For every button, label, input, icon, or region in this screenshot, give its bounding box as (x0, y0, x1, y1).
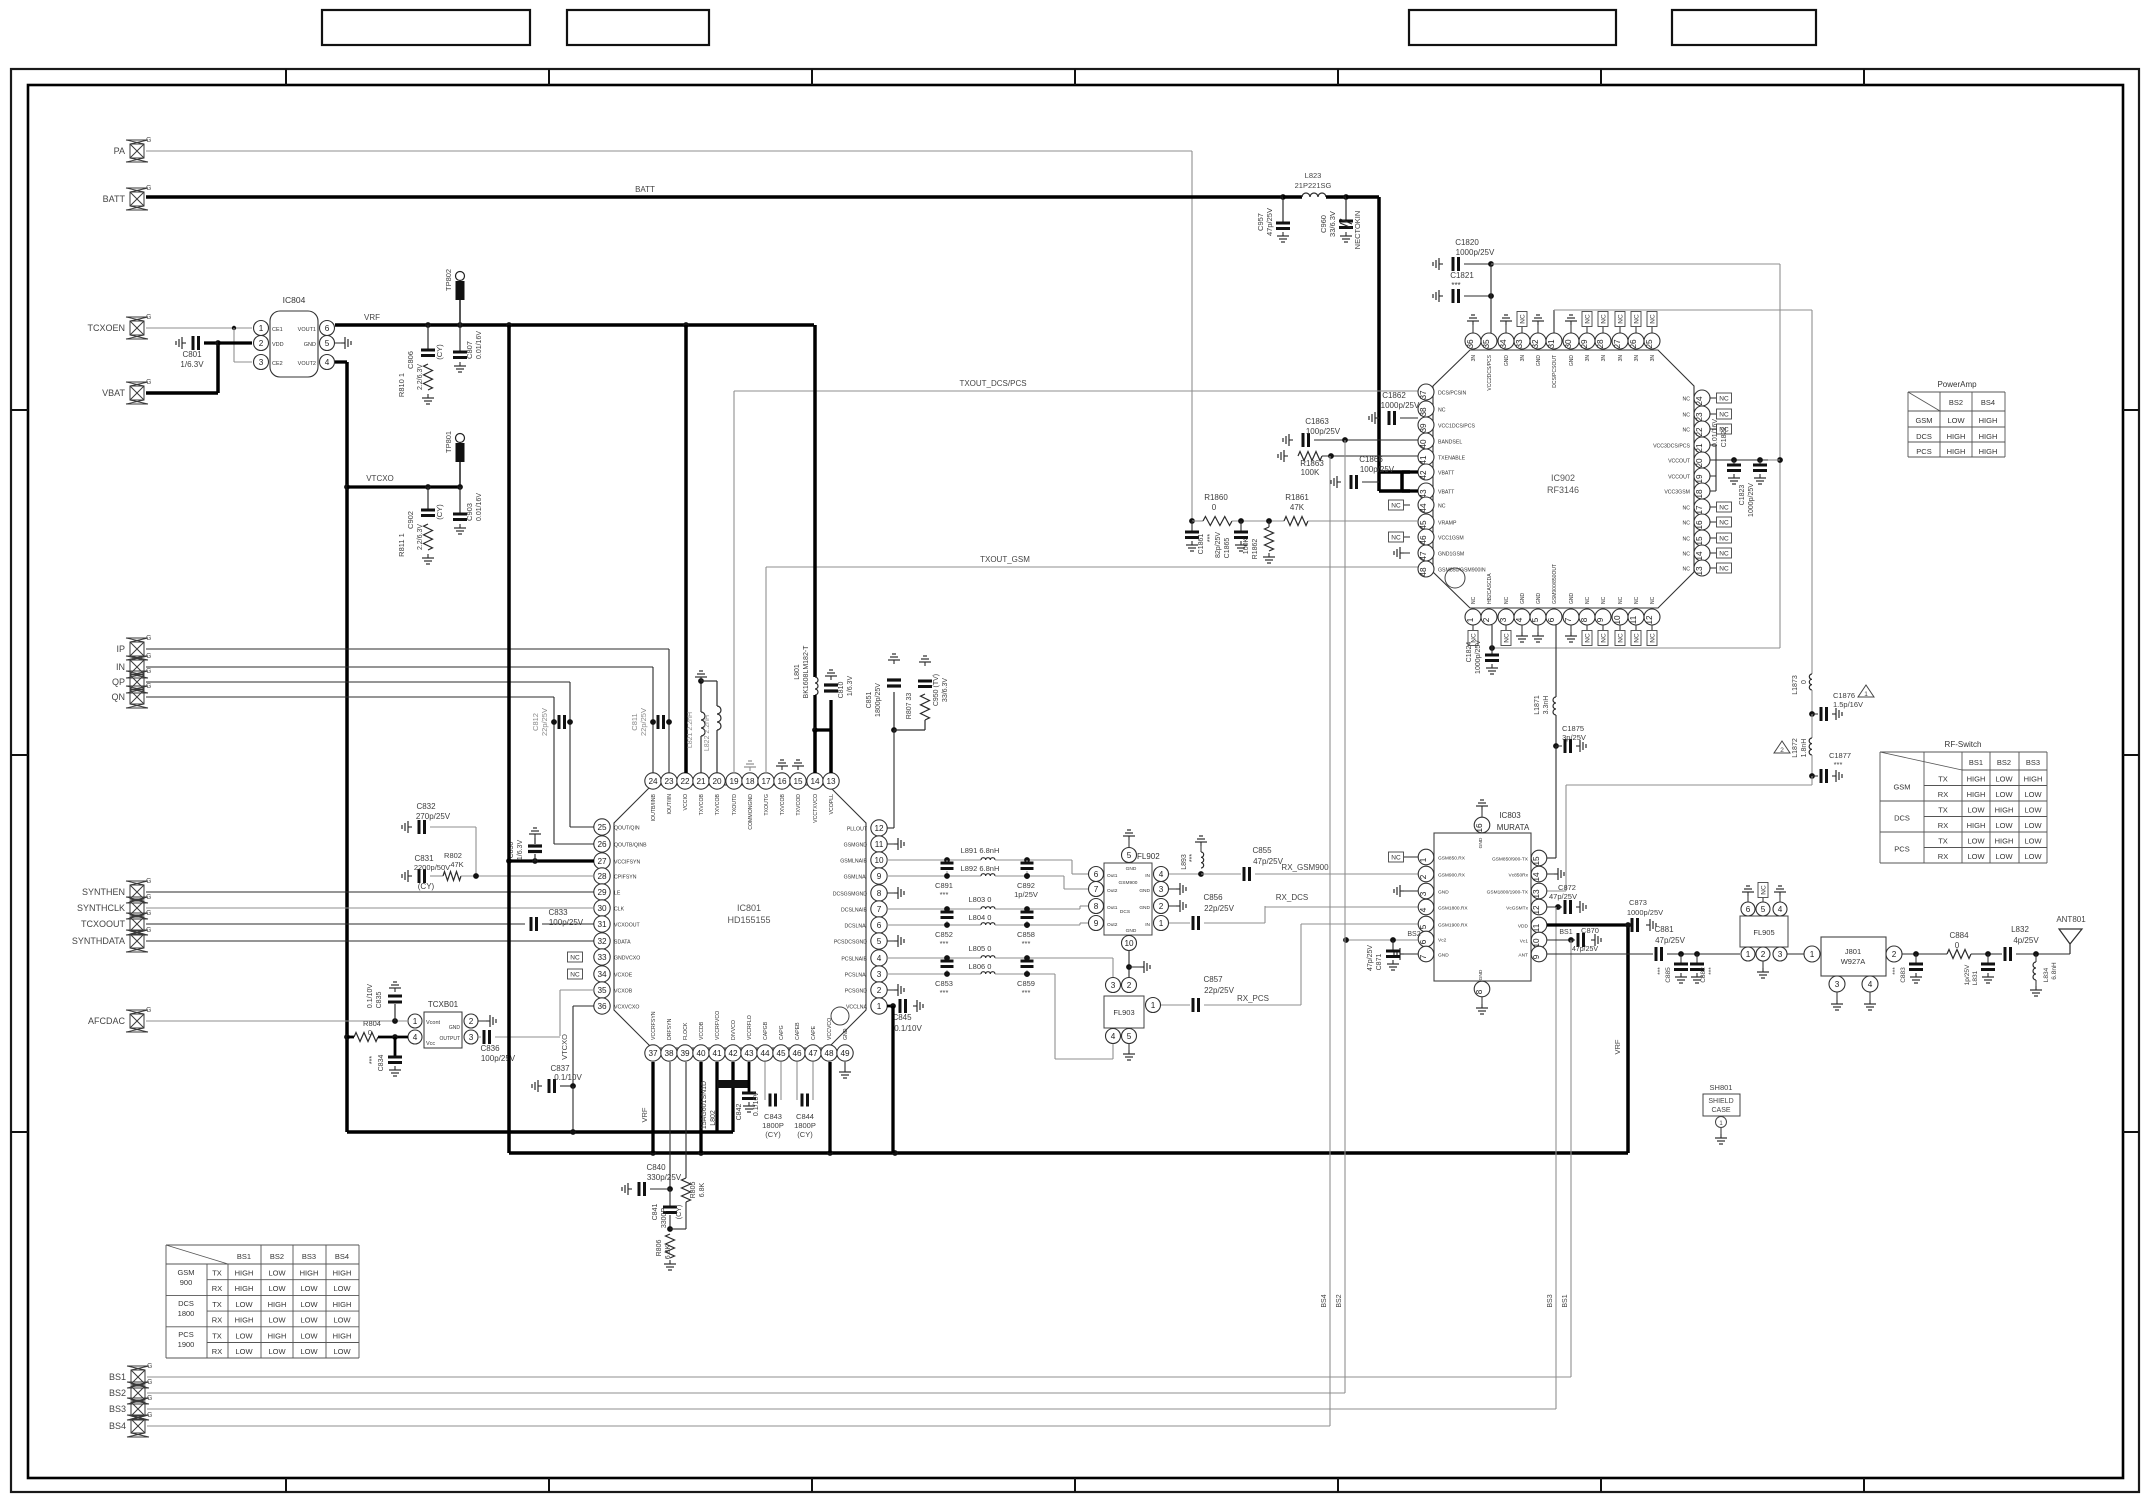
svg-text:***: *** (1892, 967, 1899, 975)
wire pin41 VCCRFVCO (715, 1062, 718, 1132)
svg-text:LOW: LOW (1995, 775, 2013, 784)
svg-text:1: 1 (1810, 950, 1815, 959)
capacitor C902 and resistor R811 (425, 484, 431, 490)
svg-text:NC: NC (1761, 885, 1768, 895)
svg-text:BS4: BS4 (335, 1252, 349, 1261)
svg-text:23: 23 (664, 777, 674, 786)
svg-text:3: 3 (1111, 981, 1116, 990)
capacitor C857 (1161, 1004, 1190, 1006)
connector QN (130, 690, 144, 704)
wire BS2 horizontal (147, 1392, 1345, 1394)
svg-text:LOW: LOW (1995, 790, 2013, 799)
svg-text:TXOUT_GSM: TXOUT_GSM (980, 555, 1030, 564)
connector BS2 (131, 1386, 145, 1400)
svg-text:C851: C851 (866, 692, 873, 709)
svg-text:C1821: C1821 (1450, 271, 1474, 280)
svg-text:NC: NC (1618, 633, 1625, 643)
svg-text:C841: C841 (652, 1204, 659, 1221)
svg-text:BS4: BS4 (1981, 398, 1995, 407)
svg-text:VCXOOUT: VCXOOUT (614, 923, 640, 929)
capacitor C844 (796, 1062, 798, 1100)
svg-text:47K: 47K (1290, 503, 1305, 512)
svg-text:G: G (146, 137, 151, 144)
svg-text:LOW: LOW (1967, 852, 1985, 861)
ground FL903 pin5 (1128, 1044, 1130, 1050)
svg-text:BS1: BS1 (1969, 758, 1983, 767)
connector PA (130, 144, 144, 158)
svg-text:G: G (146, 894, 151, 901)
svg-text:(CY): (CY) (797, 1130, 813, 1139)
svg-text:3: 3 (469, 1033, 474, 1042)
svg-text:330p/25V: 330p/25V (647, 1173, 682, 1182)
svg-text:1: 1 (1466, 617, 1475, 622)
svg-text:1000p/25V: 1000p/25V (1381, 401, 1420, 410)
connector SYNTHEN (130, 885, 144, 899)
svg-text:C811: C811 (630, 713, 639, 730)
svg-text:CE1: CE1 (272, 327, 283, 333)
svg-text:22: 22 (1695, 427, 1704, 437)
NC flag IC902 pin46 (1404, 536, 1410, 538)
svg-text:21: 21 (696, 777, 706, 786)
svg-text:LOW: LOW (268, 1269, 286, 1278)
wire pin42 DIVVCO (731, 1062, 734, 1132)
svg-text:3N: 3N (1471, 355, 1477, 362)
ground pin8 DCSGSMGND (887, 892, 894, 894)
svg-text:LOW: LOW (235, 1300, 253, 1309)
svg-text:TCXB01: TCXB01 (428, 1000, 459, 1009)
svg-text:35: 35 (1482, 339, 1491, 349)
wire BS4 horizontal (147, 1425, 1330, 1427)
svg-text:(CY): (CY) (435, 344, 444, 360)
wire PCSLNAIB row (887, 957, 981, 959)
svg-text:RX_GSM900: RX_GSM900 (1281, 863, 1329, 872)
inductor L821 (700, 736, 702, 773)
svg-text:20: 20 (1695, 458, 1704, 468)
svg-text:15: 15 (793, 777, 803, 786)
svg-text:NC: NC (1601, 633, 1608, 643)
svg-text:LOW: LOW (1947, 416, 1965, 425)
svg-text:VCC3GSM: VCC3GSM (1664, 490, 1690, 496)
svg-text:NC: NC (1719, 520, 1729, 527)
svg-text:GNDVCXO: GNDVCXO (614, 956, 640, 962)
wire VDD VRF thick (1547, 923, 1628, 926)
ground IC803 pin8 (1481, 997, 1483, 1004)
svg-text:FLOCK: FLOCK (683, 1022, 689, 1040)
svg-text:12: 12 (1645, 615, 1654, 625)
wire PLLOUT pin12 (887, 827, 894, 829)
svg-text:L892 6.8nH: L892 6.8nH (961, 864, 1000, 873)
svg-text:5: 5 (1761, 905, 1766, 914)
capacitor C1875 (1553, 743, 1559, 749)
svg-text:11: 11 (1629, 615, 1638, 624)
connector IN (130, 660, 144, 674)
svg-text:***: *** (1451, 281, 1460, 290)
capacitor C845 (887, 1005, 893, 1008)
svg-text:GSM900.RX: GSM900.RX (1438, 873, 1466, 879)
svg-text:DCS: DCS (1916, 432, 1932, 441)
resistor R804 (344, 1034, 350, 1040)
svg-text:21P221SG: 21P221SG (1295, 181, 1332, 190)
svg-text:HD155155: HD155155 (727, 915, 770, 925)
svg-text:14: 14 (1532, 872, 1541, 882)
svg-text:0.01/16V: 0.01/16V (476, 331, 483, 359)
svg-text:NC: NC (1719, 536, 1729, 543)
svg-text:1: 1 (413, 1017, 418, 1026)
svg-text:(CY): (CY) (676, 1205, 683, 1219)
svg-text:HIGH: HIGH (300, 1269, 319, 1278)
svg-text:39: 39 (680, 1049, 690, 1058)
svg-text:0.1/10V: 0.1/10V (554, 1073, 582, 1082)
svg-text:HIGH: HIGH (235, 1269, 254, 1278)
svg-text:33/6.3V: 33/6.3V (942, 678, 949, 702)
svg-text:1.5p/16V: 1.5p/16V (1833, 700, 1863, 709)
wire VCCOUT bracket (1710, 444, 1716, 446)
svg-text:GSM850/900-TX: GSM850/900-TX (1492, 857, 1529, 863)
svg-text:47p/25V: 47p/25V (1572, 946, 1598, 953)
svg-text:BS4: BS4 (109, 1421, 126, 1431)
svg-text:BS3: BS3 (1547, 1294, 1554, 1307)
svg-text:NC: NC (1585, 596, 1591, 604)
svg-text:100K: 100K (1243, 538, 1250, 555)
svg-text:1000p/25V: 1000p/25V (1475, 640, 1482, 674)
NC flag pin33 (568, 952, 583, 962)
svg-text:3N: 3N (1520, 355, 1526, 362)
svg-text:DCS: DCS (178, 1299, 194, 1308)
svg-text:GND: GND (1536, 355, 1542, 367)
resistor R1863 (1284, 455, 1288, 457)
svg-text:FL905: FL905 (1753, 928, 1774, 937)
svg-text:24: 24 (648, 777, 658, 786)
connector SYNTHDATA (130, 934, 144, 948)
svg-text:VCCIO: VCCIO (683, 794, 689, 810)
capacitor C812 (551, 719, 557, 725)
svg-text:26: 26 (597, 840, 607, 849)
inductor L806 (981, 972, 995, 974)
svg-text:LOW: LOW (1967, 837, 1985, 846)
svg-text:***: *** (1834, 760, 1843, 769)
svg-text:38: 38 (1419, 407, 1428, 417)
svg-text:TX: TX (212, 1331, 222, 1340)
svg-text:C1822: C1822 (1721, 427, 1728, 448)
svg-text:VRF: VRF (364, 313, 380, 322)
svg-text:***: *** (369, 1056, 376, 1064)
connector VBAT (130, 386, 144, 400)
svg-text:Vcc: Vcc (426, 1041, 435, 1047)
svg-text:C1865: C1865 (1224, 538, 1231, 559)
svg-text:LOW: LOW (300, 1316, 318, 1325)
inductor L893 (1169, 873, 1201, 875)
svg-text:28: 28 (597, 872, 607, 881)
svg-text:DCSLNAI: DCSLNAI (845, 924, 868, 930)
svg-text:HIGH: HIGH (1967, 790, 1986, 799)
svg-text:11: 11 (875, 840, 884, 849)
svg-text:NC: NC (1719, 396, 1729, 403)
svg-text:HIGH: HIGH (1947, 447, 1966, 456)
svg-text:LOW: LOW (300, 1284, 318, 1293)
svg-text:NC: NC (1650, 596, 1656, 604)
connector BATT (130, 192, 144, 206)
svg-text:NC: NC (1719, 551, 1729, 558)
svg-text:21: 21 (1695, 443, 1704, 453)
svg-text:HIGH: HIGH (235, 1316, 254, 1325)
svg-text:2: 2 (1761, 950, 1766, 959)
svg-text:RF3146: RF3146 (1547, 485, 1579, 495)
svg-text:C1875: C1875 (1562, 724, 1584, 733)
svg-text:6: 6 (1094, 870, 1099, 879)
capacitor C835 (394, 988, 396, 992)
svg-text:PCSGND: PCSGND (845, 989, 867, 995)
svg-text:3: 3 (1778, 950, 1783, 959)
svg-text:IN: IN (1145, 922, 1150, 928)
svg-text:FL903: FL903 (1113, 1008, 1134, 1017)
svg-text:VTCXO: VTCXO (366, 474, 394, 483)
svg-text:NC: NC (1438, 408, 1446, 414)
svg-text:DCSGSMGND: DCSGSMGND (833, 892, 868, 898)
svg-text:43: 43 (744, 1049, 754, 1058)
svg-text:2: 2 (1892, 950, 1897, 959)
svg-text:VDD: VDD (1518, 924, 1529, 930)
svg-text:BK1608LM182-T: BK1608LM182-T (803, 645, 810, 699)
capacitor C871 (1392, 940, 1394, 950)
svg-text:2: 2 (1780, 747, 1784, 754)
svg-text:1p/25V: 1p/25V (1964, 964, 1971, 985)
svg-text:2200p/50V: 2200p/50V (414, 863, 450, 872)
capacitor C840 (628, 1188, 632, 1190)
svg-text:2: 2 (469, 1017, 474, 1026)
svg-text:VCCIFSYN: VCCIFSYN (614, 860, 640, 866)
svg-text:HIGH: HIGH (1979, 432, 1998, 441)
svg-text:GSM900/850OUT: GSM900/850OUT (1552, 564, 1558, 604)
wire TXOUT_GSM net (765, 567, 767, 773)
svg-text:TXOUT_DCS/PCS: TXOUT_DCS/PCS (959, 379, 1026, 388)
svg-text:R1860: R1860 (1204, 493, 1228, 502)
svg-text:GND: GND (1126, 866, 1137, 872)
svg-text:26: 26 (1629, 339, 1638, 349)
svg-text:LOW: LOW (2024, 837, 2042, 846)
svg-text:C1862: C1862 (1382, 391, 1406, 400)
svg-text:1800: 1800 (178, 1309, 195, 1318)
svg-text:***: *** (1189, 854, 1196, 862)
svg-text:10: 10 (1124, 939, 1134, 948)
ground pin15 (797, 766, 799, 770)
svg-text:DCS/PCSIN: DCS/PCSIN (1438, 391, 1467, 397)
wire VRF rail (335, 323, 814, 327)
ground FL902 pin3 (1169, 888, 1176, 890)
svg-text:NC: NC (1391, 503, 1401, 510)
svg-text:C859: C859 (1017, 979, 1035, 988)
svg-text:NC: NC (1650, 314, 1657, 324)
svg-text:12: 12 (1532, 905, 1541, 915)
wire pin39 FLOCK resistor R805 (685, 1062, 687, 1178)
wire VCC2 to pin35 (1490, 264, 1492, 333)
capacitor C1824 (1491, 625, 1493, 654)
svg-text:BS4: BS4 (1321, 1294, 1328, 1307)
svg-text:8: 8 (877, 889, 882, 898)
svg-text:NC: NC (1391, 855, 1401, 862)
svg-text:SHIELD: SHIELD (1708, 1098, 1733, 1105)
svg-text:VCC2DCS/PCS: VCC2DCS/PCS (1487, 354, 1493, 390)
IC antenna switch IC803 (1434, 833, 1531, 981)
capacitor C1820 (1439, 263, 1443, 265)
filter FL902 (1104, 863, 1152, 935)
wire BS2 vertical (1344, 440, 1346, 1393)
svg-text:VCCRFLO: VCCRFLO (747, 1015, 753, 1040)
svg-text:7: 7 (1419, 954, 1428, 959)
wire BATT net (146, 195, 1283, 199)
wire pin48 VCCVCO (828, 1062, 831, 1153)
svg-text:2: 2 (1159, 902, 1164, 911)
ground IC803 pin14 (1547, 873, 1554, 875)
svg-text:NC: NC (1438, 504, 1446, 510)
svg-text:NC: NC (1520, 314, 1527, 324)
svg-text:46: 46 (792, 1049, 802, 1058)
wire VcGSMTx BS3 (1547, 906, 1558, 908)
svg-text:G: G (146, 653, 151, 660)
capacitor C960 (1343, 194, 1349, 200)
svg-text:G: G (146, 910, 151, 917)
svg-text:4: 4 (1515, 617, 1524, 622)
svg-text:RX: RX (212, 1284, 222, 1293)
svg-text:10: 10 (1613, 615, 1622, 625)
inductor L834 (2035, 954, 2037, 962)
svg-text:3: 3 (1419, 891, 1428, 896)
svg-text:HIGH: HIGH (1967, 775, 1986, 784)
svg-text:IOUTB/IINB: IOUTB/IINB (651, 793, 657, 821)
svg-text:L832: L832 (2011, 925, 2029, 934)
svg-text:NC: NC (1650, 633, 1657, 643)
svg-text:VRAMP: VRAMP (1438, 521, 1457, 527)
svg-text:36: 36 (1466, 339, 1475, 349)
svg-text:BATT: BATT (103, 194, 126, 204)
ground FL905 pin4 (1779, 896, 1781, 902)
connector BS4 (131, 1419, 145, 1433)
svg-text:C957: C957 (1256, 213, 1265, 231)
svg-text:G: G (146, 927, 151, 934)
svg-text:4: 4 (1159, 870, 1164, 879)
svg-text:C845: C845 (892, 1013, 912, 1022)
border tick marks (285, 69, 287, 85)
svg-text:LOW: LOW (2024, 852, 2042, 861)
ground FL905 pin6 (1747, 896, 1749, 902)
svg-text:3N: 3N (1650, 355, 1656, 362)
svg-text:28: 28 (1596, 339, 1605, 349)
capacitor C842 (748, 1062, 751, 1092)
svg-text:VCXOE: VCXOE (614, 973, 633, 979)
wire ANT net (1547, 953, 1653, 955)
svg-text:GSM: GSM (1893, 783, 1910, 792)
capacitor C891 (941, 862, 954, 865)
svg-text:GND: GND (1536, 593, 1542, 605)
svg-text:IC803: IC803 (1499, 811, 1521, 820)
svg-text:0: 0 (1212, 503, 1217, 512)
svg-text:3: 3 (1159, 885, 1164, 894)
inductor L1872 (1811, 714, 1813, 738)
IC902 bottom grounds and NC flags (1521, 625, 1523, 632)
connector QP (130, 675, 144, 689)
svg-text:13: 13 (1532, 889, 1541, 899)
svg-text:VBATT: VBATT (1438, 490, 1455, 496)
capacitor C957 (1280, 194, 1286, 200)
svg-text:GND1GSM: GND1GSM (1438, 552, 1464, 558)
svg-text:C872: C872 (1558, 883, 1576, 892)
svg-text:19: 19 (729, 777, 739, 786)
title box 4 (1672, 10, 1816, 45)
IC RF3146 U-IC902 body (1433, 350, 1694, 608)
svg-text:G: G (146, 683, 151, 690)
svg-text:***: *** (940, 988, 949, 997)
capacitor C1877 (1809, 773, 1815, 779)
svg-text:GND: GND (449, 1025, 461, 1031)
svg-text:1: 1 (1151, 1001, 1156, 1010)
svg-text:3300P: 3300P (661, 1208, 668, 1229)
svg-text:0.1/10V: 0.1/10V (367, 984, 374, 1008)
svg-text:VOUT2: VOUT2 (298, 361, 316, 367)
svg-text:OUTPUT: OUTPUT (439, 1036, 460, 1042)
svg-text:NC: NC (1601, 314, 1608, 324)
svg-text:31: 31 (1547, 339, 1556, 349)
svg-text:R1862: R1862 (1252, 539, 1259, 560)
svg-text:5: 5 (1127, 851, 1132, 860)
svg-text:BS2: BS2 (109, 1388, 126, 1398)
svg-text:CAPGB: CAPGB (763, 1021, 769, 1040)
svg-text:41: 41 (712, 1049, 722, 1058)
wire BATT to VBATT pins (1346, 195, 1379, 199)
svg-text:G: G (146, 668, 151, 675)
svg-text:NC: NC (1683, 428, 1691, 434)
warning triangle 1 (1858, 685, 1874, 697)
svg-text:Vcont: Vcont (426, 1020, 441, 1026)
svg-text:1/6.3V: 1/6.3V (517, 840, 524, 861)
svg-text:PLLOUT: PLLOUT (847, 827, 868, 833)
svg-text:HIGH: HIGH (1995, 806, 2014, 815)
svg-text:C883: C883 (1900, 967, 1907, 983)
svg-text:BS2: BS2 (1949, 398, 1963, 407)
svg-text:1800P: 1800P (794, 1121, 816, 1130)
ground FL902 pin2 (1169, 905, 1176, 907)
NC flag IC803 pin1 (1404, 856, 1418, 858)
svg-text:2: 2 (1127, 981, 1132, 990)
wire DCSLNAI row (887, 924, 981, 926)
svg-text:20: 20 (712, 777, 722, 786)
svg-text:G: G (146, 878, 151, 885)
svg-text:LOW: LOW (2024, 821, 2042, 830)
svg-text:900: 900 (180, 1278, 193, 1287)
svg-text:C856: C856 (1203, 893, 1223, 902)
svg-text:4: 4 (1868, 980, 1873, 989)
IC902 top NC flags and grounds (1472, 325, 1474, 333)
capacitor C834 (394, 1037, 397, 1056)
svg-text:GSM850.RX: GSM850.RX (1438, 856, 1466, 862)
svg-text:100p/25V: 100p/25V (549, 918, 584, 927)
capacitor C841 (669, 1189, 671, 1206)
svg-text:C858: C858 (1017, 930, 1035, 939)
wire VTCXO net (335, 360, 347, 363)
svg-text:47: 47 (1419, 551, 1428, 561)
svg-text:VCCOUT: VCCOUT (1668, 459, 1691, 465)
wire PA net (146, 150, 1192, 152)
svg-text:HIGH: HIGH (235, 1284, 254, 1293)
svg-text:TXVCOB: TXVCOB (699, 793, 705, 815)
title box 1 (322, 10, 530, 45)
inductor L802 ferrite (717, 1080, 749, 1088)
svg-text:(CY): (CY) (435, 504, 444, 520)
connector TCXOOUT (130, 917, 144, 931)
svg-text:C837: C837 (550, 1064, 570, 1073)
svg-text:100p/25V: 100p/25V (1360, 465, 1395, 474)
svg-text:VDD: VDD (272, 342, 284, 348)
svg-text:16: 16 (777, 777, 787, 786)
svg-text:45: 45 (1419, 520, 1428, 530)
